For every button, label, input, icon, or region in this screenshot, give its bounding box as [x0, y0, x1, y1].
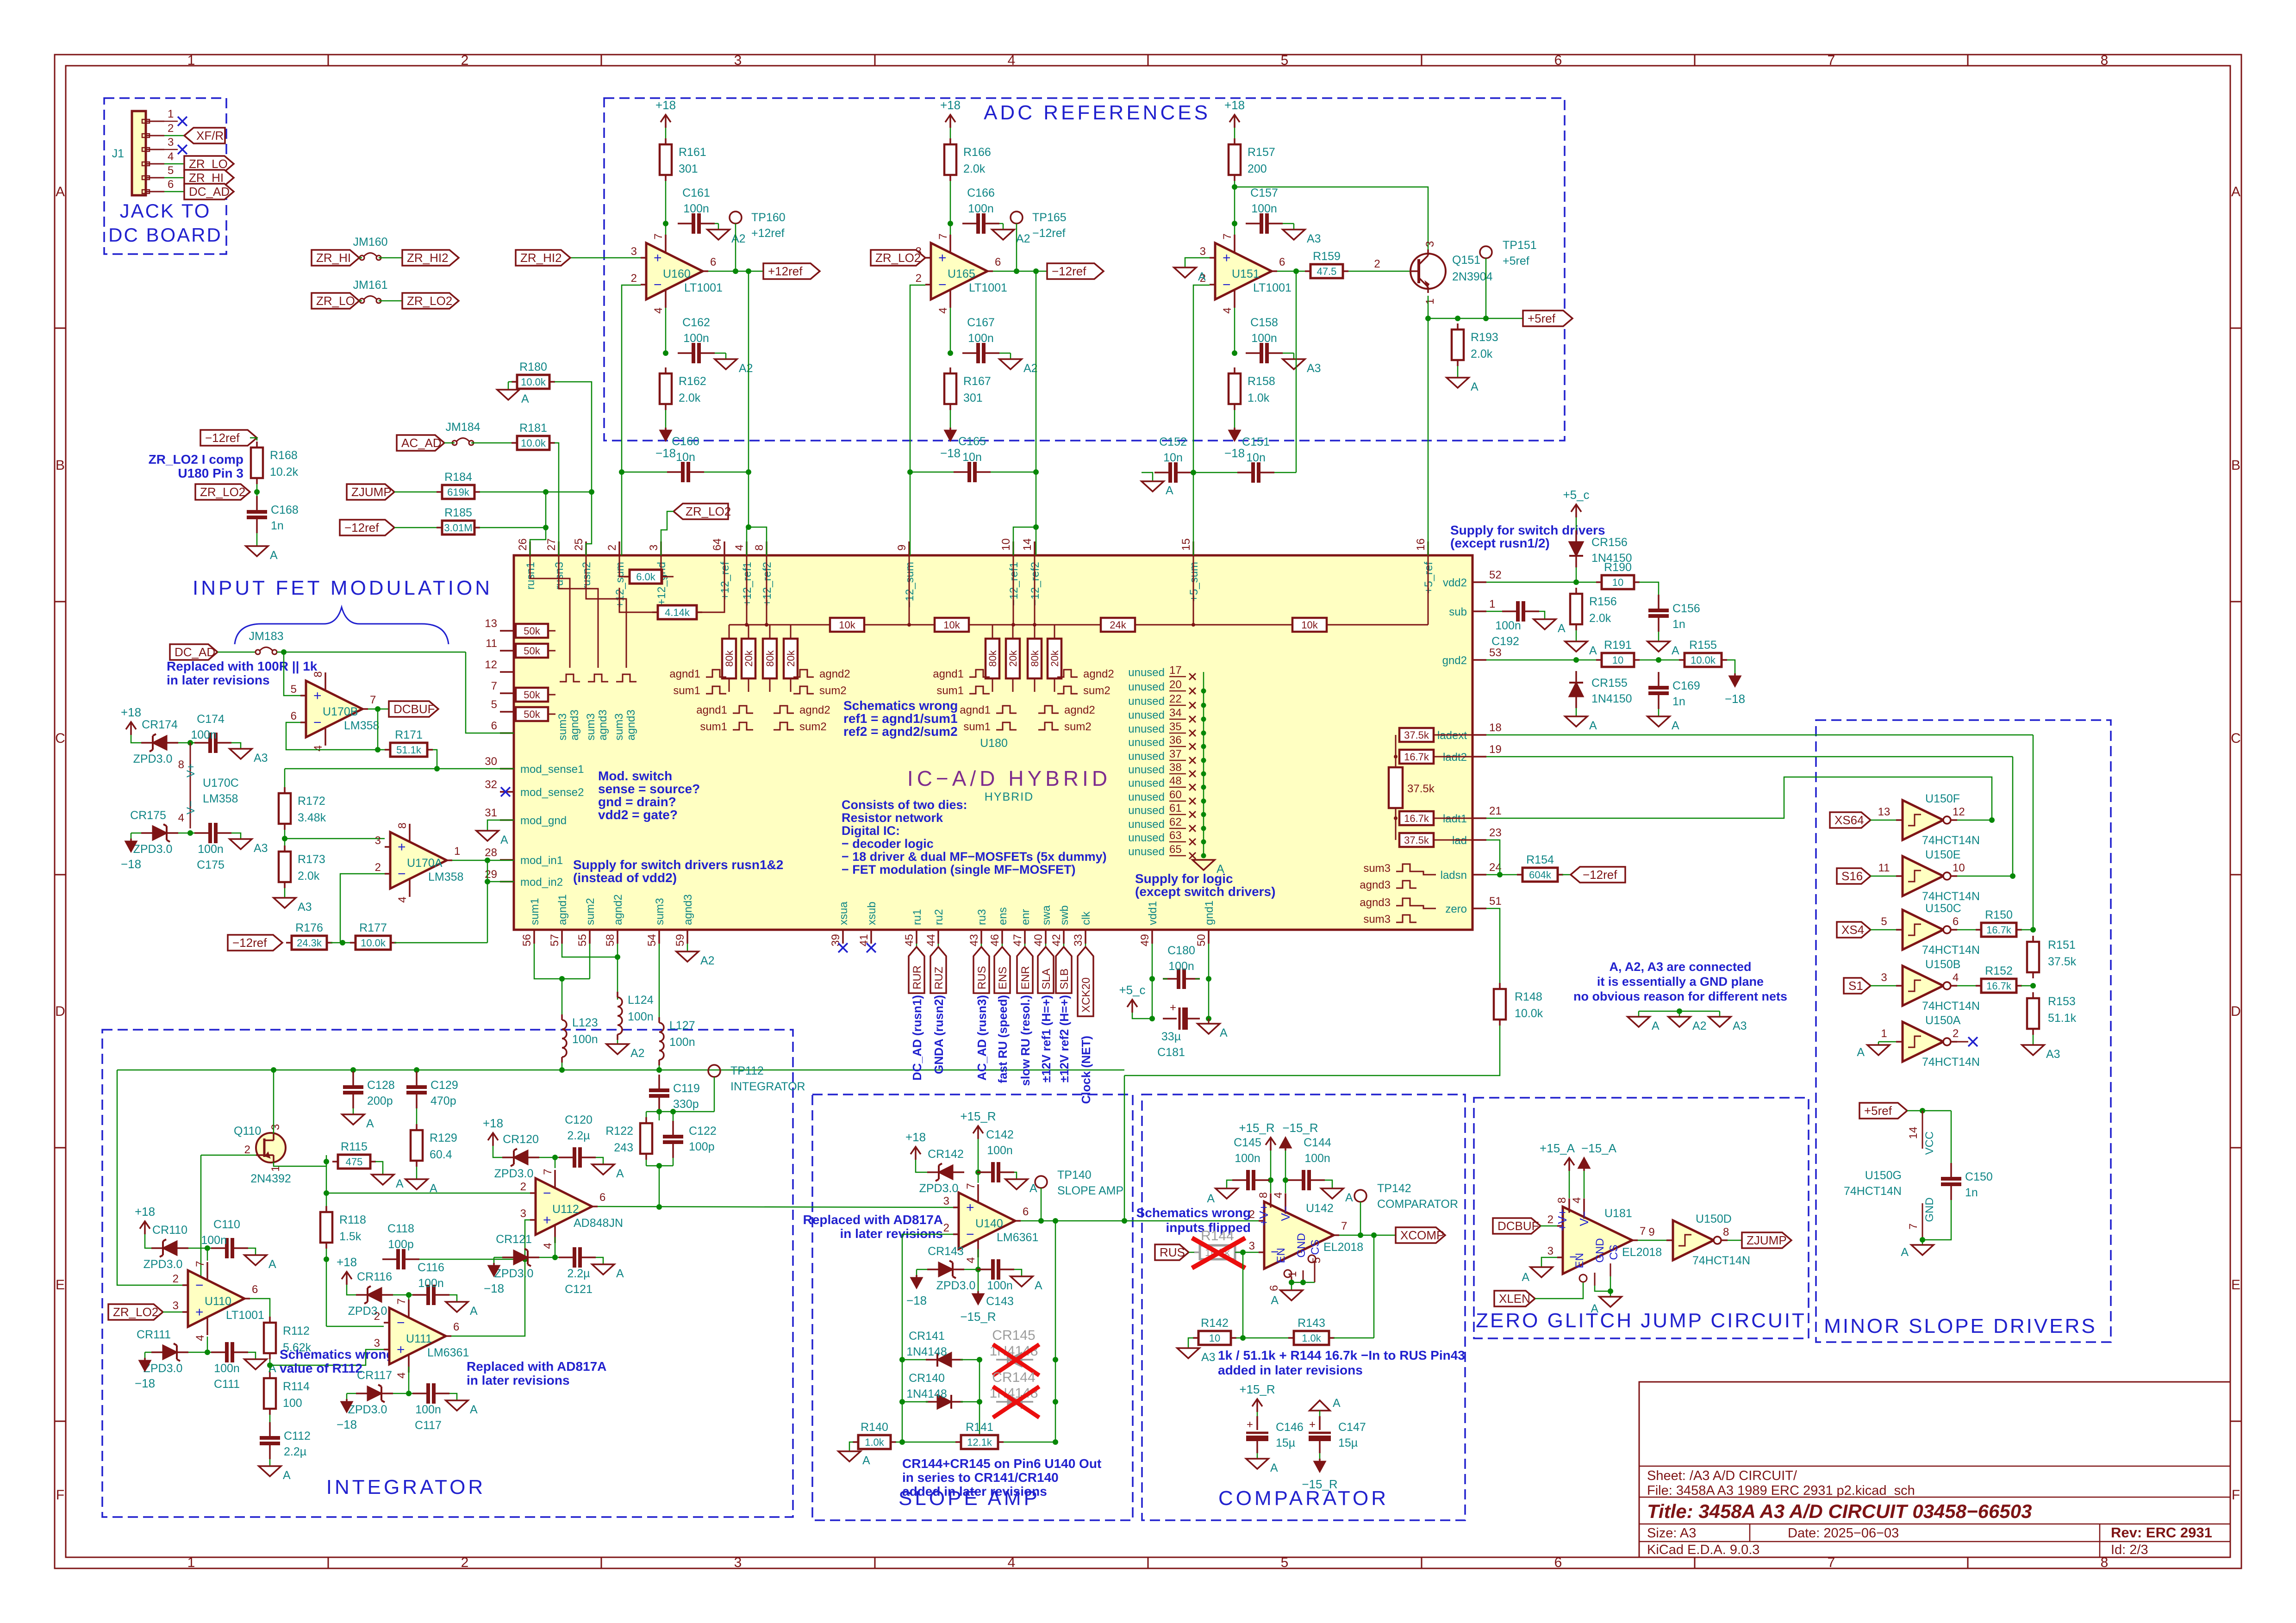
svg-text:10: 10: [1953, 862, 1965, 874]
svg-text:1: 1: [454, 845, 460, 858]
note supply for switch drivers: [1450, 523, 1605, 550]
svg-text:Mod. switch: Mod. switch: [598, 769, 672, 783]
note schematics wrong inputs flipped: [1136, 1206, 1251, 1235]
unconnected pin xsua 39 x-mark: [838, 943, 848, 952]
svg-text:A: A: [616, 1167, 624, 1180]
svg-text:4: 4: [395, 1372, 408, 1378]
svg-text:LM358: LM358: [203, 792, 238, 805]
svg-text:6: 6: [491, 720, 497, 732]
svg-text:100n: 100n: [987, 1144, 1013, 1157]
svg-text:+: +: [195, 1305, 204, 1320]
wire U142 output: [1339, 1232, 1396, 1238]
svg-text:1N4148: 1N4148: [906, 1345, 947, 1358]
resistor R112 5.62k: [264, 1317, 312, 1359]
svg-text:LT1001: LT1001: [684, 281, 723, 294]
diode CR117 ZPD3.0: [348, 1369, 393, 1416]
svg-text:+: +: [1170, 1001, 1176, 1014]
svg-text:+V+: +V+: [1257, 1204, 1271, 1226]
capacitor C157 100n: [1246, 187, 1283, 234]
wire: [1541, 1225, 1557, 1227]
svg-text:gnd = drain?: gnd = drain?: [598, 795, 676, 809]
wire: [480, 489, 594, 495]
svg-text:+: +: [654, 250, 662, 266]
svg-text:ZR_LO: ZR_LO: [316, 294, 355, 308]
svg-text:R129: R129: [430, 1132, 457, 1144]
svg-text:36: 36: [1169, 734, 1182, 746]
svg-text:A3: A3: [254, 752, 268, 765]
svg-text:INTEGRATOR: INTEGRATOR: [730, 1080, 805, 1093]
wire pin51 zero: [1486, 908, 1500, 987]
svg-text:U160: U160: [663, 267, 691, 280]
ground A2: [707, 230, 746, 245]
section box ZERO GLITCH JUMP CIRCUIT: [1474, 1098, 1809, 1338]
svg-text:C143: C143: [986, 1295, 1014, 1308]
svg-text:S16: S16: [1841, 869, 1863, 883]
ground A: [1628, 1017, 1660, 1032]
transistor Q151 2N3904: [1410, 241, 1493, 305]
svg-text:+5_c: +5_c: [1563, 488, 1589, 502]
global label -12ref out: [1047, 263, 1104, 279]
ground A2 (L124): [606, 1044, 645, 1060]
svg-text:C160: C160: [672, 435, 699, 448]
wire: [715, 353, 726, 359]
wire: [1957, 929, 1976, 931]
wire: [596, 1257, 603, 1264]
svg-text:unused: unused: [1128, 666, 1165, 679]
svg-text:9: 9: [1648, 1226, 1654, 1238]
wire: [950, 410, 951, 428]
ground A (C110): [244, 1255, 276, 1271]
svg-text:A2: A2: [1692, 1020, 1707, 1032]
svg-text:55: 55: [576, 934, 589, 946]
svg-text:AD848JN: AD848JN: [574, 1217, 623, 1230]
svg-text:2: 2: [461, 53, 469, 68]
svg-text:2.2µ: 2.2µ: [567, 1129, 590, 1142]
svg-text:agnd3: agnd3: [625, 709, 637, 740]
svg-text:2: 2: [173, 1273, 179, 1285]
svg-text:−15_R: −15_R: [960, 1310, 996, 1324]
power -18 (CR143): [906, 1275, 927, 1307]
ground A3 (R142): [1177, 1348, 1216, 1364]
svg-text:10: 10: [1612, 577, 1623, 588]
svg-text:3: 3: [1249, 1240, 1255, 1252]
svg-text:in later revisions: in later revisions: [840, 1226, 943, 1241]
svg-text:R161: R161: [679, 146, 706, 159]
note slow RU (resol.): [1018, 995, 1032, 1086]
svg-text:6: 6: [453, 1321, 459, 1333]
section box SLOPE AMP: [812, 1094, 1133, 1520]
svg-text:ZPD3.0: ZPD3.0: [348, 1305, 387, 1318]
svg-text:+: +: [313, 688, 322, 703]
svg-text:R191: R191: [1604, 639, 1632, 652]
ground A (C142): [1005, 1179, 1037, 1195]
svg-text:JM161: JM161: [353, 279, 387, 292]
svg-text:mod_in1: mod_in1: [520, 854, 563, 867]
capacitor C180 100n: [1163, 944, 1200, 989]
svg-text:R152: R152: [1985, 964, 2013, 977]
svg-text:agnd1: agnd1: [556, 894, 569, 925]
svg-text:Q110: Q110: [234, 1125, 261, 1138]
ground A (C143): [1011, 1276, 1042, 1292]
test point TP151: [1480, 239, 1537, 318]
svg-text:A: A: [366, 1117, 374, 1130]
wire: [353, 1070, 354, 1114]
svg-text:R143: R143: [1298, 1317, 1325, 1330]
wire: [277, 649, 466, 655]
resistor R168 10.2k: [251, 442, 299, 484]
svg-text:+15_R: +15_R: [1239, 1382, 1275, 1396]
wire to pin25: [586, 492, 592, 555]
section box COMPARATOR: [1142, 1094, 1465, 1520]
svg-text:3: 3: [1881, 971, 1887, 984]
svg-text:3: 3: [269, 1124, 282, 1130]
svg-text:3: 3: [648, 545, 660, 551]
wire pin4 down: [1232, 308, 1237, 356]
wire U112 out to U140: [598, 1204, 953, 1210]
capacitor C129 470p: [406, 1071, 458, 1108]
svg-text:GNDA (rusn2): GNDA (rusn2): [932, 995, 946, 1074]
internal resistor 4.14k: [619, 555, 724, 619]
svg-text:sum1: sum1: [529, 898, 541, 925]
svg-text:1: 1: [187, 1555, 195, 1570]
wire: [1319, 1411, 1321, 1418]
power -15_R (U142): [1280, 1121, 1318, 1150]
svg-text:+V+: +V+: [1555, 1209, 1569, 1231]
resistor R156 2.0k: [1570, 588, 1617, 630]
svg-text:100n: 100n: [1251, 332, 1277, 345]
svg-text:agnd3: agnd3: [1360, 879, 1391, 891]
inductor L127 100n: [659, 1017, 695, 1065]
svg-text:8: 8: [312, 671, 324, 677]
capacitor C116 100n: [412, 1261, 449, 1305]
ground A2: [1668, 1017, 1707, 1032]
resistor R143 1.0k: [1288, 1317, 1335, 1345]
svg-text:VCC: VCC: [1923, 1132, 1936, 1155]
svg-text:ZPD3.0: ZPD3.0: [494, 1167, 534, 1180]
wire: [164, 163, 184, 165]
svg-text:slow RU (resol.): slow RU (resol.): [1018, 995, 1032, 1086]
svg-text:−18: −18: [484, 1281, 504, 1295]
wire DC_AD to pin6: [466, 652, 514, 733]
svg-text:sum3: sum3: [1363, 862, 1391, 875]
wire pin 54 down: [659, 944, 660, 1017]
svg-text:+18: +18: [655, 98, 676, 112]
inverter U150B 74HCT14N: [1896, 958, 1980, 1013]
svg-text:C158: C158: [1250, 316, 1278, 329]
wire U170B out: [368, 706, 389, 712]
capacitor C175 100n: [194, 823, 231, 871]
svg-text:(except switch drivers): (except switch drivers): [1135, 884, 1275, 899]
svg-text:sum1: sum1: [963, 721, 991, 733]
diode CR142 ZPD3.0: [919, 1148, 964, 1195]
ground A2: [999, 359, 1038, 375]
wire pin3 to gnd: [1185, 258, 1210, 267]
diode CR140 1N4148: [902, 1372, 980, 1409]
note supply for switch drivers rusn1&2: [573, 858, 783, 885]
svg-text:ZR_LO2: ZR_LO2: [686, 504, 731, 518]
svg-text:(instead of vdd2): (instead of vdd2): [573, 871, 677, 885]
svg-text:63: 63: [1169, 829, 1182, 842]
svg-text:10.0k: 10.0k: [1515, 1007, 1543, 1020]
svg-text:1: 1: [1424, 298, 1436, 305]
svg-text:+: +: [1247, 1418, 1253, 1431]
svg-text:74HCT14N: 74HCT14N: [1844, 1185, 1902, 1198]
svg-text:7: 7: [1221, 233, 1234, 239]
svg-text:Date: 2025−06−03: Date: 2025−06−03: [1788, 1526, 1899, 1541]
svg-text:10.0k: 10.0k: [1691, 654, 1716, 666]
svg-text:10: 10: [1000, 538, 1012, 551]
internal reference switches agnd/sum: [669, 668, 1114, 733]
svg-text:unused: unused: [1128, 681, 1165, 693]
ground A3 (R153): [2022, 1045, 2060, 1061]
svg-text:2: 2: [168, 122, 174, 135]
wire: [1334, 1235, 1374, 1338]
svg-text:100n: 100n: [987, 1279, 1013, 1292]
wire: [1283, 1150, 1288, 1193]
svg-text:100n: 100n: [968, 202, 994, 215]
brace input fet modulation: [235, 607, 449, 644]
svg-text:C122: C122: [689, 1125, 717, 1138]
capacitor C151 10n: [1193, 435, 1296, 483]
svg-text:+: +: [938, 250, 947, 266]
svg-text:2.0k: 2.0k: [679, 392, 701, 404]
jumper JM160: [353, 236, 402, 260]
wire pins 57/58 join: [562, 944, 620, 960]
svg-text:E: E: [56, 1277, 65, 1293]
svg-text:53: 53: [1489, 647, 1502, 659]
svg-text:A: A: [1591, 1302, 1598, 1315]
ground A inverted (C147): [1310, 1397, 1341, 1411]
capacitor C112 2.2u: [260, 1422, 311, 1459]
svg-text:7: 7: [395, 1298, 408, 1304]
svg-text:sum2: sum2: [1083, 684, 1111, 697]
svg-text:+15_R: +15_R: [1239, 1121, 1274, 1135]
svg-text:no obvious reason for differen: no obvious reason for different nets: [1573, 989, 1787, 1003]
svg-text:C111: C111: [214, 1378, 240, 1391]
svg-text:10.0k: 10.0k: [521, 376, 546, 388]
svg-text:CR141: CR141: [909, 1330, 945, 1343]
wire: [131, 735, 141, 743]
svg-text:6: 6: [1268, 1285, 1280, 1291]
svg-text:+18: +18: [121, 705, 141, 719]
svg-text:7: 7: [965, 1183, 977, 1189]
svg-text:sum2: sum2: [584, 898, 597, 925]
svg-text:XCOMP: XCOMP: [1400, 1228, 1444, 1242]
svg-text:50k: 50k: [524, 689, 540, 701]
svg-text:−18: −18: [1725, 692, 1745, 706]
svg-text:4: 4: [1272, 1192, 1285, 1198]
wire: [331, 940, 352, 945]
svg-text:LT1001: LT1001: [1253, 281, 1291, 294]
svg-text:ZPD3.0: ZPD3.0: [133, 752, 173, 765]
ground A3 (C175): [230, 839, 268, 855]
svg-text:4: 4: [1221, 307, 1234, 313]
svg-text:8: 8: [753, 545, 766, 551]
svg-text:−15_R: −15_R: [1282, 1121, 1318, 1135]
resistor R193 2.0k: [1452, 323, 1498, 366]
svg-text:CR120: CR120: [503, 1133, 539, 1146]
svg-text:74HCT14N: 74HCT14N: [1922, 834, 1980, 847]
svg-text:3: 3: [943, 1195, 949, 1207]
resistor R177 10.0k: [350, 921, 396, 950]
capacitor C192 100n: [1491, 601, 1539, 648]
wire: [188, 1337, 213, 1355]
svg-text:U110: U110: [205, 1295, 231, 1308]
svg-text:4: 4: [1008, 53, 1016, 68]
wire: [948, 181, 953, 235]
op-amp U170B LM358: [291, 671, 380, 751]
svg-text:SLA: SLA: [1040, 969, 1053, 989]
capacitor C144 100n: [1288, 1136, 1331, 1190]
wire: [1188, 1338, 1193, 1348]
svg-text:value of R112: value of R112: [280, 1361, 362, 1375]
wire: [964, 1249, 983, 1291]
svg-text:7: 7: [1640, 1225, 1646, 1237]
svg-text:4: 4: [937, 307, 949, 313]
svg-text:unused: unused: [1128, 804, 1165, 817]
resistor R157 200: [1229, 138, 1275, 181]
wire output U160: [708, 268, 763, 274]
hierarchical label SLB: [1056, 944, 1072, 993]
ground A (U150A): [1857, 1045, 1890, 1059]
wire: [646, 1109, 714, 1120]
wire pin53 gnd2: [1486, 657, 1682, 663]
internal rusn switch network: [530, 555, 636, 682]
svg-text:zero: zero: [1445, 903, 1467, 915]
svg-text:A: A: [1558, 622, 1566, 635]
svg-text:+18: +18: [940, 98, 961, 112]
wire: [188, 1245, 213, 1261]
resistor R161 301: [660, 138, 706, 181]
resistor R140 1.0k: [853, 1421, 896, 1449]
power -18 (R155): [1725, 673, 1745, 706]
svg-text:C147: C147: [1338, 1421, 1366, 1434]
svg-text:C144: C144: [1304, 1136, 1331, 1149]
svg-text:LT1001: LT1001: [969, 281, 1007, 294]
wire node to U112 pin2: [324, 1162, 530, 1210]
capacitor C168 1n: [247, 496, 299, 533]
wire: [164, 191, 184, 193]
svg-text:10: 10: [1612, 654, 1623, 666]
svg-text:agnd1: agnd1: [696, 704, 727, 716]
svg-text:C142: C142: [986, 1128, 1014, 1141]
svg-text:LM6361: LM6361: [427, 1346, 469, 1359]
svg-text:−18: −18: [337, 1418, 357, 1431]
wire: [1562, 874, 1571, 876]
wire U151 out rail down: [1296, 271, 1297, 473]
wire: [1576, 630, 1577, 641]
wire: [849, 1442, 853, 1451]
svg-text:3: 3: [1547, 1245, 1554, 1257]
svg-text:unused: unused: [1128, 832, 1165, 844]
svg-text:62: 62: [1169, 816, 1182, 828]
svg-text:CR117: CR117: [357, 1369, 392, 1382]
inverter U150F 74HCT14N: [1896, 792, 1980, 847]
svg-text:4: 4: [965, 1257, 977, 1263]
power -18 (CR111): [135, 1358, 155, 1390]
test point TP160: [730, 211, 786, 268]
svg-text:C166: C166: [967, 187, 995, 199]
wire: [248, 1352, 256, 1359]
power -18 (U151): [1224, 428, 1245, 460]
svg-text:Consists of two dies:: Consists of two dies:: [842, 798, 967, 812]
svg-text:CR144+CR145 on Pin6 U140 Out: CR144+CR145 on Pin6 U140 Out: [902, 1456, 1101, 1471]
wire C118 right: [419, 1256, 528, 1262]
svg-text:swb: swb: [1058, 905, 1071, 925]
resistor R181 10.0k: [512, 422, 555, 450]
svg-text:LM6361: LM6361: [997, 1231, 1038, 1244]
svg-text:R171: R171: [395, 728, 423, 741]
svg-text:ens: ens: [997, 907, 1009, 925]
wire: [1257, 1453, 1258, 1459]
svg-text:8: 8: [396, 822, 409, 828]
svg-text:C157: C157: [1250, 187, 1278, 199]
svg-text:10k: 10k: [839, 619, 855, 631]
global label DCBUF (U181): [1493, 1218, 1541, 1234]
global label ZR_LO2 (JM161): [402, 293, 459, 309]
global label ZR_LO2 (R168): [195, 484, 250, 500]
svg-text:1.0k: 1.0k: [865, 1436, 885, 1448]
capacitor C146 15u: [1246, 1416, 1304, 1453]
svg-text:1n: 1n: [1672, 695, 1685, 708]
svg-text:A: A: [470, 1305, 478, 1318]
capacitor C169 1n: [1648, 672, 1700, 709]
svg-text:29: 29: [485, 868, 497, 881]
svg-text:6: 6: [995, 256, 1001, 268]
global label ZR_LO (JM161): [312, 293, 359, 309]
capacitor C167 100n: [962, 316, 999, 363]
svg-text:4: 4: [652, 307, 665, 313]
svg-text:R185: R185: [444, 506, 472, 519]
svg-text:330p: 330p: [673, 1098, 699, 1111]
power -18 (CR117): [337, 1399, 357, 1431]
svg-text:20k: 20k: [1007, 650, 1019, 666]
global label +5ref out: [1523, 311, 1572, 326]
resistor R114 100: [264, 1372, 310, 1415]
svg-text:37.5k: 37.5k: [1407, 783, 1435, 795]
svg-text:14: 14: [1907, 1127, 1920, 1139]
svg-text:agnd3: agnd3: [682, 894, 694, 925]
svg-text:agnd1: agnd1: [669, 668, 700, 680]
svg-text:U150B: U150B: [1925, 958, 1960, 971]
svg-text:DC_AD (rusn1): DC_AD (rusn1): [910, 995, 924, 1081]
ground A3: [1709, 1017, 1747, 1032]
global label ZJUMP (R184): [347, 484, 394, 500]
svg-text:agnd1: agnd1: [933, 668, 964, 680]
svg-text:C112: C112: [284, 1430, 311, 1443]
global label ZR_HI (JM160): [312, 250, 359, 266]
svg-text:A: A: [1220, 1026, 1228, 1039]
svg-text:Sheet: /A3 A/D CIRCUIT/: Sheet: /A3 A/D CIRCUIT/: [1647, 1468, 1797, 1483]
svg-text:7: 7: [1907, 1223, 1920, 1229]
capacitor C161 100n: [678, 187, 715, 234]
wire DC_AD down to U170B: [284, 652, 300, 696]
wire: [494, 1257, 502, 1263]
svg-text:C120: C120: [565, 1113, 593, 1126]
svg-text:37.5k: 37.5k: [1404, 729, 1429, 741]
svg-text:swa: swa: [1040, 905, 1053, 925]
ground A (C146): [1246, 1459, 1278, 1474]
svg-text:50: 50: [1195, 934, 1208, 946]
wire: [394, 527, 437, 529]
svg-text:R172: R172: [298, 795, 325, 808]
svg-text:4: 4: [396, 896, 409, 902]
svg-text:+5_c: +5_c: [1119, 983, 1145, 997]
svg-text:A: A: [1471, 380, 1479, 393]
svg-text:C152: C152: [1159, 435, 1187, 448]
svg-text:A: A: [1217, 863, 1224, 876]
wire pin24 ladsn: [1486, 872, 1519, 877]
